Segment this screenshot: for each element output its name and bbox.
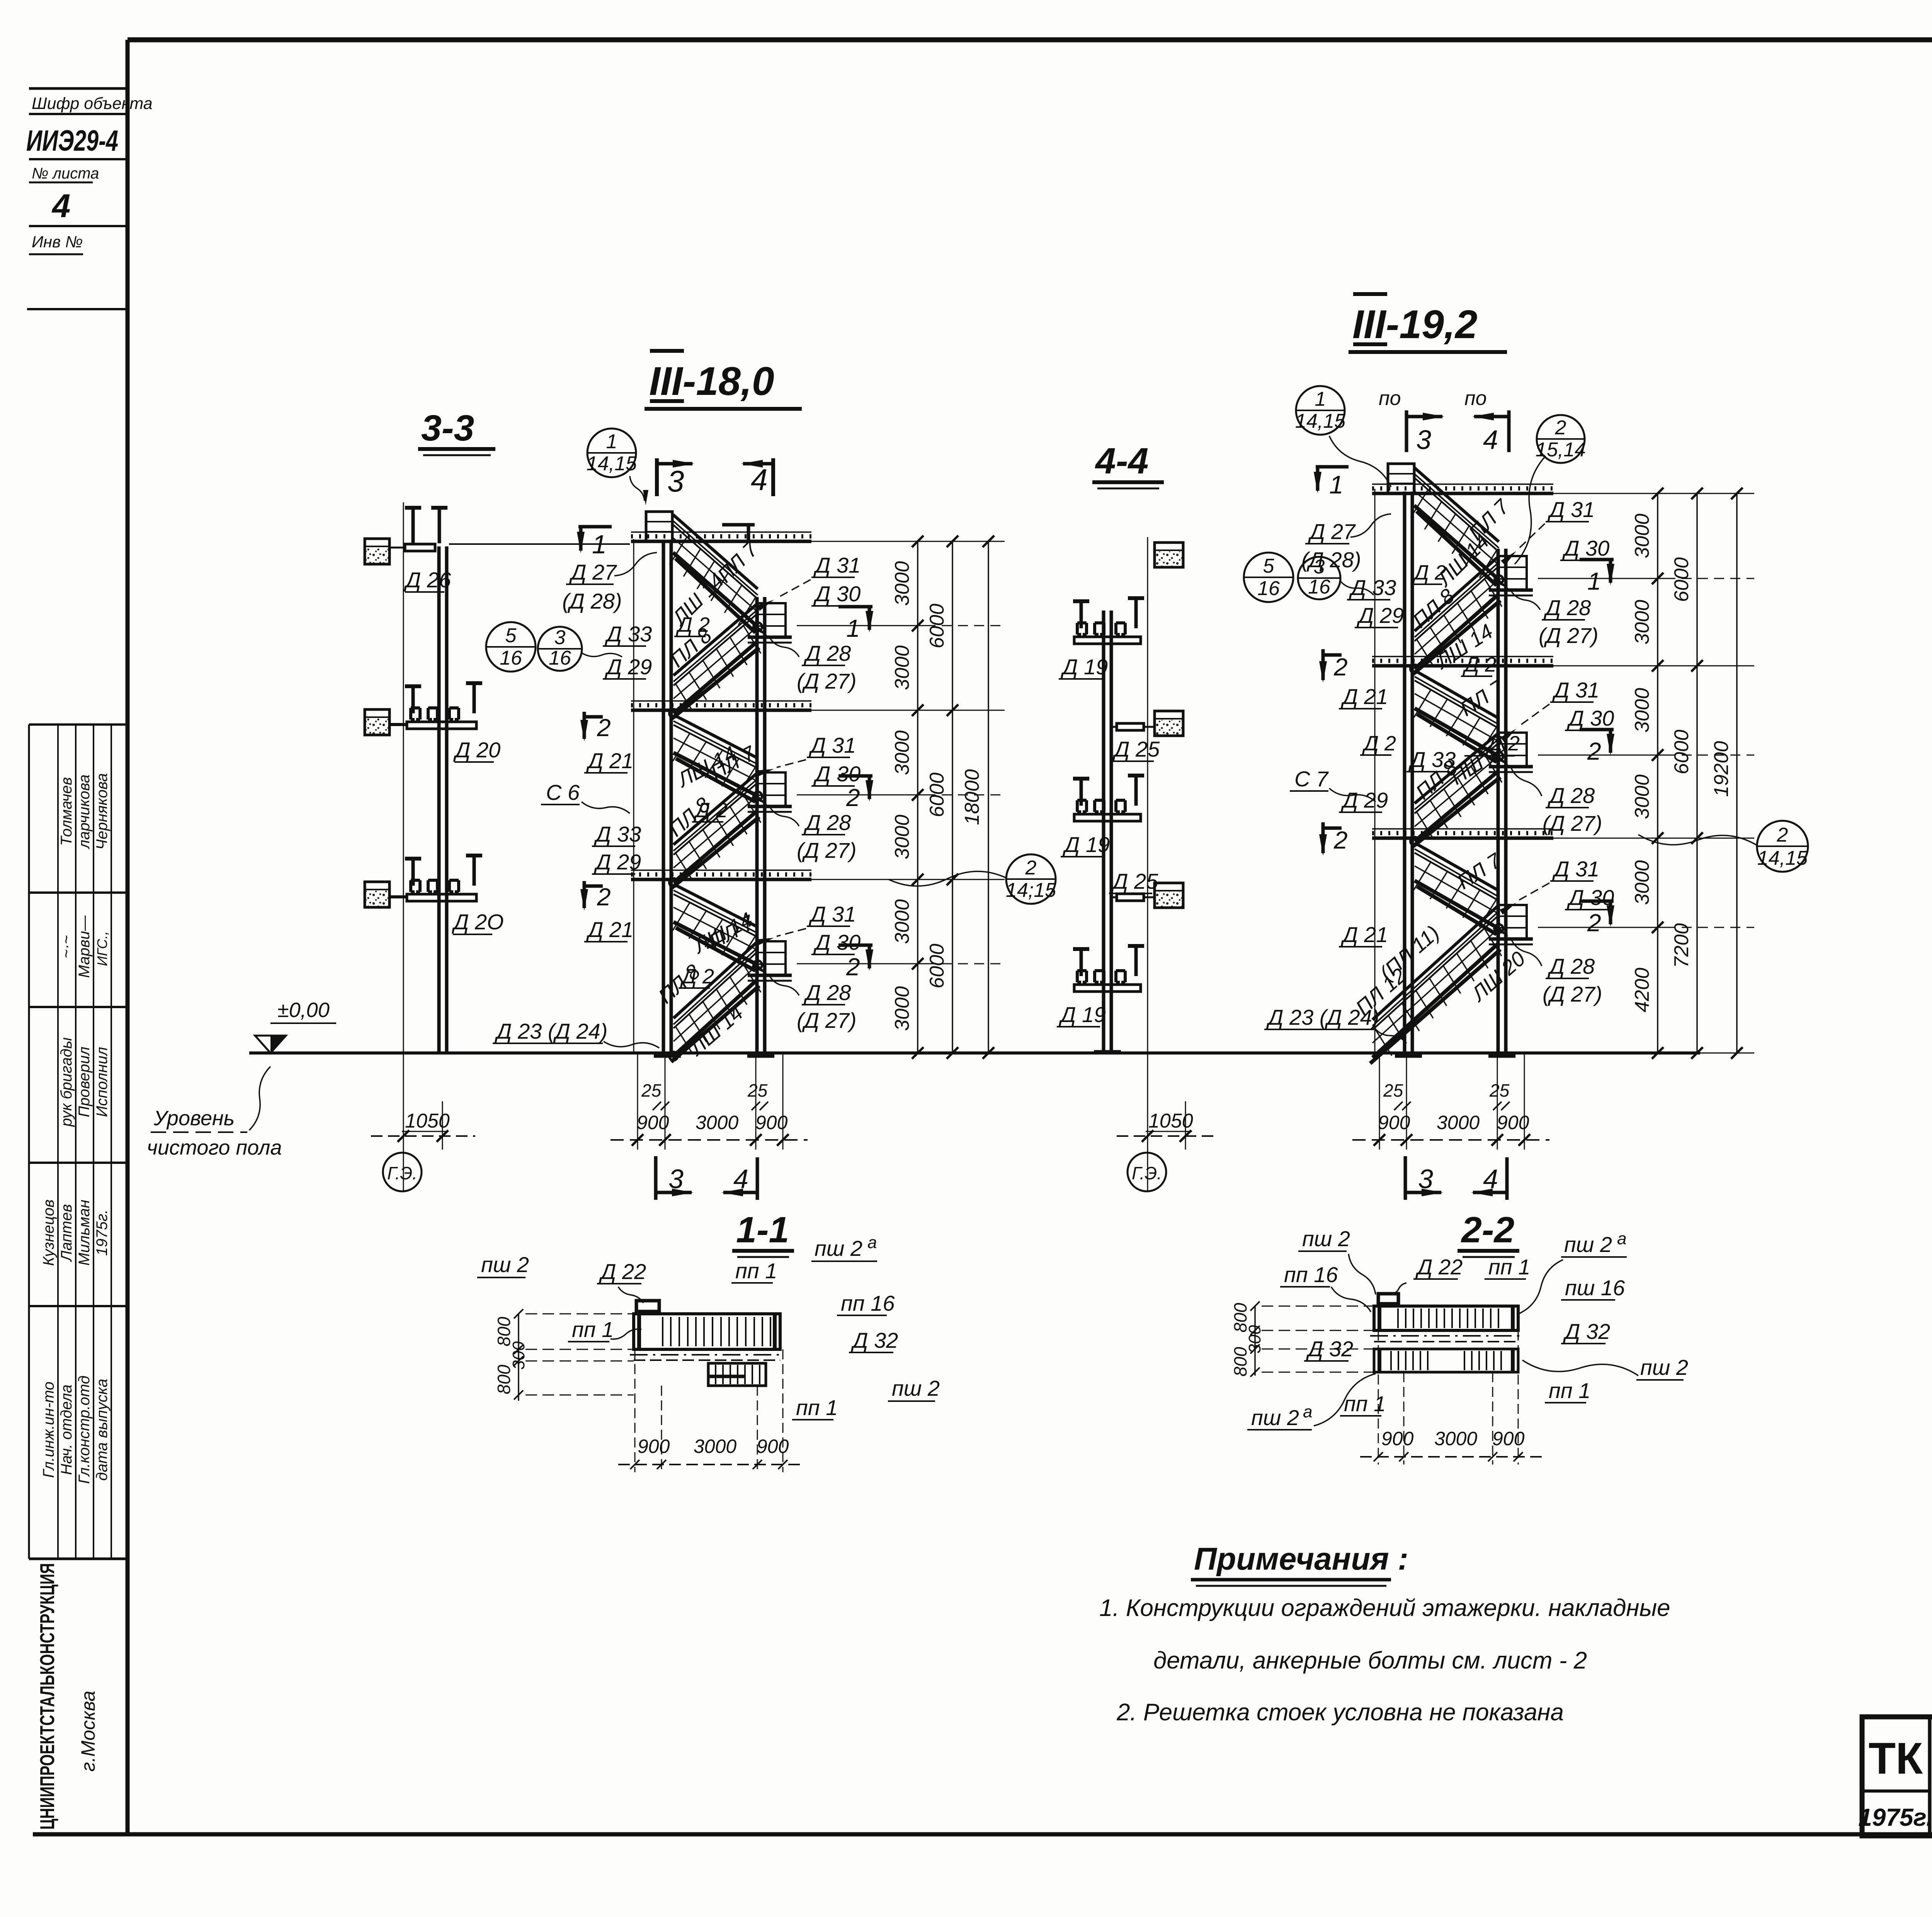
svg-text:пп 1: пп 1 xyxy=(572,1317,614,1342)
svg-text:Д 21: Д 21 xyxy=(1340,922,1388,947)
plan 2-2 D22 block xyxy=(1378,1294,1398,1304)
svg-text:4-4: 4-4 xyxy=(1095,441,1148,481)
svg-text:3000: 3000 xyxy=(891,899,913,944)
right landing platform storey 1 (III-18.0) xyxy=(758,603,786,637)
grid mark G.E. circle (left) xyxy=(383,1153,422,1191)
svg-text:№ листа: № листа xyxy=(32,165,99,182)
svg-text:по: по xyxy=(1379,387,1401,410)
svg-text:Д 21: Д 21 xyxy=(586,917,633,942)
flag 2 right storey2 (III-18.0) xyxy=(838,774,872,778)
flag 2 right storey3 (III-19.2) xyxy=(1580,900,1614,903)
svg-text:Д 30: Д 30 xyxy=(813,762,861,786)
svg-text:Д 21: Д 21 xyxy=(1340,684,1388,709)
dim stack III-19.2 xyxy=(1542,493,1754,494)
svg-text:пп 1: пп 1 xyxy=(796,1395,838,1420)
svg-text:14,15: 14,15 xyxy=(1757,847,1808,869)
svg-text:2: 2 xyxy=(1333,653,1348,681)
svg-text:(Д 27): (Д 27) xyxy=(797,1008,857,1032)
svg-text:19200: 19200 xyxy=(1710,741,1733,797)
svg-text:Д 28: Д 28 xyxy=(803,980,851,1005)
svg-text:Г.Э.: Г.Э. xyxy=(1132,1163,1162,1183)
svg-text:2: 2 xyxy=(846,953,860,981)
plan 2-2 lower band xyxy=(1374,1349,1518,1372)
svg-text:16: 16 xyxy=(1308,576,1330,598)
svg-text:4: 4 xyxy=(1483,1164,1498,1194)
svg-text:пш 2: пш 2 xyxy=(481,1252,529,1277)
svg-text:Д 32: Д 32 xyxy=(1563,1319,1610,1344)
svg-text:14,15: 14,15 xyxy=(1295,410,1346,432)
svg-text:1: 1 xyxy=(606,430,617,453)
plan 1-1 drawing xyxy=(634,1314,780,1349)
svg-text:3000: 3000 xyxy=(1631,514,1653,558)
svg-text:~·~: ~·~ xyxy=(58,935,75,958)
svg-text:1975г.: 1975г. xyxy=(94,1209,111,1256)
svg-text:2: 2 xyxy=(846,784,860,811)
svg-text:пш 16: пш 16 xyxy=(1565,1276,1625,1300)
flag 1 left (III-19.2) xyxy=(1316,465,1349,469)
column SB left (III-18.0) xyxy=(662,540,665,1056)
svg-text:3: 3 xyxy=(1314,556,1325,578)
svg-text:а: а xyxy=(867,1233,877,1252)
svg-text:пп 1: пп 1 xyxy=(1488,1255,1530,1279)
cut flag 1 upper right (III-18.0) xyxy=(722,523,755,527)
svg-text:3: 3 xyxy=(1418,1164,1433,1194)
bottom flag 4 (III-19.2) xyxy=(1505,1157,1509,1200)
svg-text:Д 29: Д 29 xyxy=(1356,603,1404,628)
section 3-3 mid wall block xyxy=(365,709,389,735)
floor slab lines (III-19.2) xyxy=(1372,492,1553,495)
section 4-4 plate level 3 xyxy=(1074,985,1141,992)
svg-text:3000: 3000 xyxy=(891,645,913,690)
callout circle 2/14;15 right of III-18.0 xyxy=(1006,854,1056,904)
flag 1 left (III-18.0) xyxy=(578,525,612,529)
svg-text:Д 31: Д 31 xyxy=(1552,678,1599,702)
svg-text:пп 16: пп 16 xyxy=(841,1291,895,1315)
callout circles 5/16 3/16 (III-18.0) xyxy=(486,622,536,672)
leader D31/D30 storey2 (III-19.2) xyxy=(1519,704,1549,726)
svg-text:2: 2 xyxy=(1587,737,1601,765)
svg-text:6000: 6000 xyxy=(1670,730,1693,774)
callout circle 2/15,14 (III-19.2) xyxy=(1537,415,1585,463)
svg-text:3000: 3000 xyxy=(1631,860,1653,905)
section 4-4 plate level 1 xyxy=(1074,637,1141,644)
svg-text:Чернякова: Чернякова xyxy=(94,773,111,850)
flag 2 right storey2 (III-19.2) xyxy=(1580,728,1614,731)
svg-text:±0,00: ±0,00 xyxy=(277,998,330,1022)
svg-text:Д 30: Д 30 xyxy=(813,582,861,606)
leader D28 storey3 (III-19.2) xyxy=(1511,938,1542,966)
leader D31/D30 storey3 xyxy=(777,929,806,936)
section 3-3 tie D26 xyxy=(405,544,435,551)
exit platform top (III-19.2) xyxy=(1388,464,1414,493)
flag 1 right storey1 (III-18.0) xyxy=(838,605,872,609)
column S7 left (III-19.2) xyxy=(1403,492,1406,1056)
svg-text:С 6: С 6 xyxy=(546,780,580,805)
svg-text:III-18,0: III-18,0 xyxy=(649,359,774,404)
plan 1-1 bottom dims 900 3000 900 xyxy=(634,1349,636,1472)
dims 900 3000 900 under III-19.2 xyxy=(1379,1053,1380,1150)
svg-text:Д 31: Д 31 xyxy=(808,733,856,757)
svg-text:1. Конструкции ограждений э: 1. Конструкции ограждений этажерки. накл… xyxy=(1099,1595,1670,1621)
ground line xyxy=(249,1051,1700,1055)
plan 1-1 left dims 800/300/800 xyxy=(518,1314,519,1401)
svg-text:Д 28: Д 28 xyxy=(803,810,851,835)
svg-text:18000: 18000 xyxy=(961,769,983,825)
svg-text:6000: 6000 xyxy=(926,772,948,817)
svg-text:Д 22: Д 22 xyxy=(599,1259,646,1284)
svg-text:Д 25: Д 25 xyxy=(1112,737,1160,761)
svg-text:Д 32: Д 32 xyxy=(1306,1337,1353,1361)
svg-text:Д 23 (Д 24): Д 23 (Д 24) xyxy=(494,1019,607,1043)
svg-text:4: 4 xyxy=(51,188,70,225)
svg-text:Д 21: Д 21 xyxy=(586,748,633,773)
svg-text:Д 2: Д 2 xyxy=(1412,561,1446,584)
bottom flag 3 (III-19.2) xyxy=(1404,1156,1407,1200)
svg-text:пш 2: пш 2 xyxy=(1564,1232,1612,1257)
svg-text:1050: 1050 xyxy=(405,1110,450,1132)
svg-text:2: 2 xyxy=(1555,417,1566,439)
svg-text:(Д 27): (Д 27) xyxy=(1543,811,1602,835)
svg-text:Д 20: Д 20 xyxy=(453,738,500,762)
section 3-3 bottom level plate xyxy=(407,894,476,901)
svg-text:3000: 3000 xyxy=(891,986,913,1031)
svg-text:С 7: С 7 xyxy=(1294,767,1329,791)
svg-text:3000: 3000 xyxy=(891,561,913,606)
svg-text:3000: 3000 xyxy=(1631,600,1653,645)
svg-text:чистого пола: чистого пола xyxy=(147,1136,282,1159)
left wall line (III-18.0) xyxy=(633,539,634,1053)
section 3-3 top wall block D26 xyxy=(365,539,389,564)
svg-text:Д 2О: Д 2О xyxy=(451,910,504,934)
exit platform top (III-18.0) xyxy=(646,512,672,542)
svg-text:Д 31: Д 31 xyxy=(808,902,856,926)
leader D31/D30 storey2 xyxy=(777,760,806,767)
svg-text:5: 5 xyxy=(505,624,517,647)
svg-text:2-2: 2-2 xyxy=(1461,1209,1514,1250)
svg-text:Д 2: Д 2 xyxy=(1362,732,1396,755)
svg-text:Д 31: Д 31 xyxy=(813,553,861,577)
svg-text:3: 3 xyxy=(1416,425,1431,455)
svg-text:900: 900 xyxy=(755,1112,788,1133)
svg-text:ТК: ТК xyxy=(1869,1734,1923,1783)
svg-text:Д 30: Д 30 xyxy=(1566,706,1614,730)
section 4-4 bracket D25 level 1 xyxy=(1111,726,1117,728)
stair flights storey 1 (III-18.0): PL8 lower xyxy=(673,604,757,675)
svg-text:6000: 6000 xyxy=(926,944,948,988)
section 4-4 wall grid line xyxy=(1147,537,1148,1192)
svg-text:25: 25 xyxy=(1383,1080,1403,1101)
svg-text:Д 2: Д 2 xyxy=(1486,732,1520,755)
plan 2-2 left dims xyxy=(1254,1306,1256,1376)
svg-text:Д 2: Д 2 xyxy=(694,799,728,822)
stair flight storey1 upper (III-19.2) xyxy=(1414,468,1499,542)
flag 2 left storey3 (III-19.2) xyxy=(1321,822,1325,853)
svg-text:6000: 6000 xyxy=(1670,557,1693,602)
section 4-4 top wall block xyxy=(1155,543,1183,567)
stair flight storey3 long lower LSh20 (III-19.2) xyxy=(1372,906,1498,1020)
svg-text:дата выпуска: дата выпуска xyxy=(94,1379,111,1481)
svg-text:Д 29: Д 29 xyxy=(594,850,641,874)
stair flight storey2 lower (III-19.2) xyxy=(1415,733,1498,803)
left wall line (III-19.2) xyxy=(1374,489,1376,1053)
svg-text:ЦНИИПРОЕКТСТАЛЬКОНСТРУКЦИЯ: ЦНИИПРОЕКТСТАЛЬКОНСТРУКЦИЯ xyxy=(36,1563,59,1830)
stamp lower divider xyxy=(27,308,128,310)
leader D28 storey1 (III-19.2) xyxy=(1511,590,1540,610)
svg-text:Д 19: Д 19 xyxy=(1058,1002,1106,1027)
svg-text:пш 2: пш 2 xyxy=(892,1376,940,1400)
stair flights storey 1 (III-18.0): LSh14 upper xyxy=(673,515,758,589)
svg-text:ИИЭ29-4: ИИЭ29-4 xyxy=(26,124,118,157)
svg-text:Д 33: Д 33 xyxy=(604,622,652,646)
svg-text:14;15: 14;15 xyxy=(1006,879,1056,902)
svg-text:Шифр объекта: Шифр объекта xyxy=(32,94,153,113)
title block box xyxy=(1862,1717,1932,1836)
callout circles 5/16 3/16 (III-19.2) xyxy=(1244,553,1293,602)
signature table box (rotated) xyxy=(29,723,128,726)
svg-text:900: 900 xyxy=(637,1112,669,1133)
svg-text:пш 2: пш 2 xyxy=(815,1236,862,1260)
svg-text:(Д 27): (Д 27) xyxy=(797,669,857,693)
plan 2-2 bottom dims xyxy=(1378,1330,1379,1465)
section 4-4 column xyxy=(1102,611,1105,1052)
svg-text:1-1: 1-1 xyxy=(736,1209,789,1250)
svg-text:Д 22: Д 22 xyxy=(1415,1255,1463,1279)
svg-text:Д 27: Д 27 xyxy=(1308,519,1356,544)
svg-text:2: 2 xyxy=(597,883,611,911)
svg-text:2: 2 xyxy=(1777,824,1788,846)
bottom flag 3 (III-18.0) xyxy=(654,1156,658,1200)
svg-text:Д 32: Д 32 xyxy=(850,1328,898,1352)
svg-text:3000: 3000 xyxy=(694,1436,736,1457)
svg-text:2: 2 xyxy=(1025,857,1037,879)
svg-text:25: 25 xyxy=(1489,1080,1510,1101)
svg-text:Мильман: Мильман xyxy=(76,1200,93,1266)
svg-text:2: 2 xyxy=(597,714,611,742)
svg-text:а: а xyxy=(1617,1229,1626,1248)
floor slab lines (III-18.0) xyxy=(631,540,811,543)
svg-text:2: 2 xyxy=(1333,826,1348,854)
svg-text:900: 900 xyxy=(757,1436,789,1457)
svg-text:3000: 3000 xyxy=(696,1112,738,1133)
svg-text:Д 28: Д 28 xyxy=(1547,783,1595,808)
svg-text:Нач. отдела: Нач. отдела xyxy=(58,1385,75,1475)
leader D28 storey1 xyxy=(770,638,799,657)
leader D28 storey3 xyxy=(770,976,799,995)
section 3-3 column xyxy=(437,546,441,1053)
svg-text:детали, анкерные болты см. л: детали, анкерные болты см. лист - 2 xyxy=(1153,1647,1587,1674)
leader D31/D30 storey1 (III-19.2) xyxy=(1519,524,1545,549)
svg-text:Г.Э.: Г.Э. xyxy=(387,1163,417,1183)
svg-text:900: 900 xyxy=(1492,1428,1525,1449)
svg-text:1: 1 xyxy=(1315,388,1326,410)
svg-text:25: 25 xyxy=(747,1080,768,1101)
svg-text:16: 16 xyxy=(1257,577,1280,600)
svg-text:Д 30: Д 30 xyxy=(813,930,861,954)
callout circle 1/14,15 (III-18.0) xyxy=(587,429,636,477)
svg-text:пш 2: пш 2 xyxy=(1640,1355,1688,1379)
svg-text:3000: 3000 xyxy=(1631,688,1653,733)
dim stack III-18.0 xyxy=(808,541,1005,542)
section line at top floor from 3-3 xyxy=(449,543,630,545)
svg-text:Д 25: Д 25 xyxy=(1111,869,1158,893)
section 4-4 plate level 2 xyxy=(1074,814,1141,821)
svg-text:Д 27: Д 27 xyxy=(569,560,617,584)
svg-text:Толмачев: Толмачев xyxy=(58,777,75,846)
svg-text:Д 19: Д 19 xyxy=(1060,655,1108,679)
svg-text:а: а xyxy=(1303,1402,1312,1421)
column right (III-18.0) xyxy=(755,597,759,1056)
svg-text:800: 800 xyxy=(494,1364,514,1394)
svg-text:Исполнил: Исполнил xyxy=(94,1047,111,1117)
svg-text:(Д 27): (Д 27) xyxy=(1539,623,1599,648)
svg-text:1: 1 xyxy=(846,614,860,642)
callout circle 1/14,15 (III-19.2) xyxy=(1296,386,1345,435)
section 3-3 top T profiles xyxy=(405,506,421,510)
svg-text:3: 3 xyxy=(667,464,684,498)
svg-text:пп 1: пп 1 xyxy=(1549,1378,1590,1403)
svg-text:пш 2: пш 2 xyxy=(1302,1226,1350,1251)
svg-text:пш 2: пш 2 xyxy=(1251,1405,1299,1430)
flag 2 left storey2 (III-19.2) xyxy=(1321,649,1325,680)
svg-text:3000: 3000 xyxy=(891,815,913,859)
stamp: Shifr ob`ekta xyxy=(29,87,128,90)
section 3-3 wall grid line xyxy=(403,502,404,1192)
svg-text:14,15: 14,15 xyxy=(587,452,637,475)
svg-text:900: 900 xyxy=(1497,1112,1529,1133)
flag 2 right storey3 (III-18.0) xyxy=(838,944,872,947)
svg-text:1: 1 xyxy=(592,530,607,559)
svg-text:по: по xyxy=(1464,387,1487,410)
flag 2 left storey3 (III-18.0) xyxy=(583,881,586,908)
section 3-3 mid level plate xyxy=(407,722,476,729)
svg-text:3000: 3000 xyxy=(1437,1112,1480,1133)
svg-text:3: 3 xyxy=(668,1164,684,1194)
svg-text:4200: 4200 xyxy=(1631,968,1653,1012)
grid mark G.E. circle (4-4) xyxy=(1128,1153,1166,1191)
svg-text:1050: 1050 xyxy=(1148,1110,1193,1132)
svg-text:2: 2 xyxy=(1587,909,1601,937)
callout circle 2/14,15 right of III-19.2 xyxy=(1757,821,1808,872)
svg-text:1: 1 xyxy=(1329,470,1344,499)
section 3-3 dim 1050 xyxy=(403,1055,404,1150)
svg-text:1975г.: 1975г. xyxy=(1858,1803,1932,1831)
svg-text:3-3: 3-3 xyxy=(421,408,474,449)
svg-text:Гл.инж.ин-то: Гл.инж.ин-то xyxy=(40,1381,57,1478)
svg-text:3000: 3000 xyxy=(1631,774,1653,819)
sheet border frame xyxy=(128,37,1932,43)
section 4-4 bracket D25 level 2 xyxy=(1111,896,1117,898)
svg-text:Примечания :: Примечания : xyxy=(1194,1541,1408,1577)
top flag 3 (III-18.0) xyxy=(655,458,659,496)
svg-text:рук бригады: рук бригады xyxy=(58,1038,75,1127)
svg-text:Лаптев: Лаптев xyxy=(58,1204,75,1262)
svg-text:(Д 27): (Д 27) xyxy=(797,838,857,862)
svg-text:1: 1 xyxy=(1587,567,1601,595)
svg-text:Д 28: Д 28 xyxy=(803,641,851,665)
svg-text:Д 28: Д 28 xyxy=(1547,954,1595,978)
svg-text:Марви—: Марви— xyxy=(76,915,93,978)
svg-text:3000: 3000 xyxy=(891,730,913,775)
stair flight storey2 upper (III-19.2) xyxy=(1415,670,1499,718)
flag 2 left storey2 (III-18.0) xyxy=(583,712,586,739)
svg-text:Гл.констр.отд: Гл.констр.отд xyxy=(76,1376,93,1484)
svg-text:7200: 7200 xyxy=(1670,923,1693,968)
svg-text:Уровень: Уровень xyxy=(153,1107,235,1130)
svg-text:Д 26: Д 26 xyxy=(403,568,451,592)
stair flights storey 3 (III-18.0): upper xyxy=(673,884,758,927)
svg-text:4: 4 xyxy=(733,1164,748,1194)
svg-text:900: 900 xyxy=(1381,1428,1414,1449)
svg-text:Д 19: Д 19 xyxy=(1062,832,1110,857)
svg-text:пп 1: пп 1 xyxy=(1344,1391,1386,1416)
right landing storey1 (III-19.2) xyxy=(1499,556,1527,590)
leader D31/D30 storey1 xyxy=(777,580,811,598)
column right (III-19.2) xyxy=(1497,549,1500,1056)
svg-text:25: 25 xyxy=(641,1080,662,1101)
svg-text:900: 900 xyxy=(1378,1112,1410,1133)
svg-text:5: 5 xyxy=(1263,555,1275,577)
svg-text:(Д 28): (Д 28) xyxy=(562,589,622,613)
stair flight storey1 lower (III-19.2) xyxy=(1415,557,1498,631)
bottom flag 4 (III-18.0) xyxy=(756,1157,759,1200)
svg-text:Д 29: Д 29 xyxy=(604,655,652,679)
svg-text:3000: 3000 xyxy=(1434,1428,1477,1449)
leader D28 storey2 xyxy=(770,807,799,826)
svg-text:3: 3 xyxy=(554,626,566,649)
svg-text:пп 16: пп 16 xyxy=(1284,1262,1338,1287)
stair flights storey 3 (III-18.0): lower xyxy=(673,942,757,1018)
svg-text:Д 29: Д 29 xyxy=(1340,788,1388,812)
svg-text:Д 2: Д 2 xyxy=(676,613,710,636)
stair flights storey 2 (III-18.0): lower xyxy=(673,773,757,845)
leader D28 storey2 (III-19.2) xyxy=(1511,767,1542,796)
svg-text:Д 2: Д 2 xyxy=(1463,653,1497,676)
flag 1 right storey1 (III-19.2) xyxy=(1580,558,1614,561)
svg-text:пп 1: пп 1 xyxy=(735,1259,777,1283)
leader D31/D30 storey3 (III-19.2) xyxy=(1519,883,1549,900)
svg-text:16: 16 xyxy=(500,647,522,669)
svg-text:Д 28: Д 28 xyxy=(1543,595,1591,620)
stair flights storey 2 (III-18.0): LSh14 upper xyxy=(673,715,758,758)
svg-text:Д 2: Д 2 xyxy=(680,965,714,988)
svg-text:ларчикова: ларчикова xyxy=(76,774,93,849)
svg-text:Д 31: Д 31 xyxy=(1552,857,1599,881)
svg-text:Проверил: Проверил xyxy=(76,1047,93,1118)
section 3-3 bottom wall block xyxy=(365,882,389,907)
svg-text:15,14: 15,14 xyxy=(1536,439,1586,461)
dims 900 3000 900 under III-18.0 xyxy=(637,1053,638,1150)
svg-text:Инв №: Инв № xyxy=(32,233,83,251)
svg-text:800: 800 xyxy=(1230,1347,1250,1376)
svg-text:2. Решетка стоек условна: 2. Решетка стоек условна не показана xyxy=(1116,1699,1564,1726)
svg-text:Д 33: Д 33 xyxy=(594,822,641,846)
svg-text:ИГС.,: ИГС., xyxy=(94,931,110,966)
svg-text:(Д 27): (Д 27) xyxy=(1543,982,1602,1006)
svg-text:4: 4 xyxy=(751,463,767,497)
dim 1050 under 4-4 xyxy=(1147,1055,1148,1150)
stair flight storey3 upper (III-19.2) xyxy=(1415,843,1499,891)
plan 2-2 drawing xyxy=(1374,1306,1518,1330)
svg-text:Кузнецов: Кузнецов xyxy=(40,1199,57,1266)
svg-text:Д 30: Д 30 xyxy=(1562,536,1609,560)
svg-text:6000: 6000 xyxy=(926,604,948,648)
svg-text:Д 31: Д 31 xyxy=(1547,497,1595,522)
svg-text:16: 16 xyxy=(549,647,571,669)
svg-text:III-19,2: III-19,2 xyxy=(1352,302,1478,347)
svg-text:900: 900 xyxy=(638,1436,670,1457)
svg-text:4: 4 xyxy=(1483,425,1498,455)
top flag 4 (III-18.0) xyxy=(771,458,775,496)
